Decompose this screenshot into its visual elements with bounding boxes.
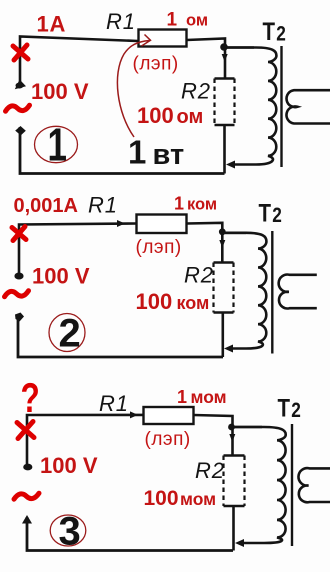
transformer T2 primary winding, circuit 3 (234, 427, 286, 543)
wire: circuit 3 top right R1 to node A (194, 415, 233, 455)
resistor R1 box, circuit 1 (139, 30, 187, 47)
transformer T2 core, circuit 3 (291, 424, 293, 546)
red power arrow into R1, circuit 1 (117, 35, 150, 138)
svg-text:R1: R1 (106, 9, 136, 34)
AC source bottom terminal arrow, circuit 3 (22, 515, 32, 524)
transformer T2 primary winding, circuit 1 (227, 48, 276, 165)
wire: circuit 2 left bottom + bottom run (18, 315, 223, 357)
svg-text:1: 1 (167, 10, 178, 31)
svg-text:ком: ком (187, 196, 217, 214)
svg-text:1: 1 (174, 194, 184, 214)
current arrow into R1, circuit 3 (130, 411, 138, 418)
circled number 3 (50, 510, 86, 554)
wire: node A to transformer primary top, circuit 1 (227, 46, 254, 49)
svg-text:ком: ком (177, 293, 210, 313)
svg-text:мом: мом (191, 387, 227, 407)
wire: R2 bottom to bottom corner, circuit 1 (223, 125, 226, 174)
wire: circuit 1 left bottom + bottom run (20, 127, 225, 174)
svg-text:100 V: 100 V (40, 453, 98, 478)
circled number 2 (49, 312, 85, 356)
svg-text:(лэп): (лэп) (145, 429, 191, 450)
wire: circuit 3 left bottom + bottom run (27, 517, 233, 551)
svg-text:100: 100 (144, 487, 179, 510)
transformer T2 core, circuit 2 (271, 231, 273, 354)
transformer T2 secondary winding, circuit 3 (298, 468, 330, 502)
svg-text:R1: R1 (99, 391, 129, 416)
current arrow on R2 branch, circuit 3 (229, 434, 235, 442)
svg-text:3: 3 (59, 510, 81, 554)
wire: node A to transformer primary top, circuit 3 (234, 426, 262, 429)
svg-text:(лэп): (лэп) (136, 237, 182, 258)
svg-text:1: 1 (128, 134, 146, 171)
resistor R2 box (dashed), circuit 3 (224, 456, 245, 507)
junction arrow at bottom node, circuit 3 (235, 539, 244, 547)
AC source top terminal arrow, circuit 1 (15, 80, 26, 90)
label: unknown current ? (21, 374, 40, 422)
svg-text:100 V: 100 V (31, 79, 89, 104)
svg-text:(лэп): (лэп) (133, 54, 179, 75)
current arrow on R2 branch, circuit 2 (219, 240, 225, 248)
junction arrow at bottom node, circuit 1 (226, 161, 235, 169)
transformer T2 primary winding, circuit 2 (225, 233, 266, 349)
AC source top terminal arrow, circuit 3 (23, 464, 32, 471)
AC source tilde, circuit 3 (14, 493, 39, 499)
label: T2, circuit 1 (263, 17, 286, 46)
svg-text:1: 1 (177, 387, 187, 407)
switch X mark, circuit 3 (17, 422, 34, 439)
circled number 1 (35, 119, 78, 171)
resistor R1 box, circuit 2 (137, 215, 187, 234)
svg-text:мом: мом (180, 489, 216, 509)
wire: circuit 1 left+top from source to R1 (20, 37, 138, 87)
wire: R2 bottom to bottom corner, circuit 2 (222, 313, 225, 358)
svg-text:2: 2 (59, 312, 81, 356)
svg-text:100: 100 (137, 103, 174, 128)
svg-text:1A: 1A (37, 12, 67, 37)
AC source tilde, circuit 2 (5, 291, 29, 297)
resistor R2 box (dashed), circuit 2 (214, 263, 234, 313)
AC source tilde, circuit 1 (6, 105, 30, 111)
transformer T2 core, circuit 1 (280, 46, 282, 167)
wire: R2 bottom to bottom corner, circuit 3 (232, 506, 235, 551)
label: T2, circuit 2 (259, 199, 282, 228)
AC source bottom terminal arrow, circuit 1 (15, 126, 26, 135)
svg-text:R2: R2 (195, 458, 225, 483)
resistor R2 box (dashed), circuit 1 (215, 79, 235, 126)
wire: circuit 3 left+top from source to R1 (27, 415, 143, 464)
svg-text:0,001A: 0,001A (14, 195, 79, 217)
junction node A dot, circuit 1 (220, 43, 228, 51)
AC source top terminal arrow, circuit 2 (14, 273, 23, 280)
svg-text:R2: R2 (181, 79, 211, 104)
wire: circuit 2 left+top from source to R1 (19, 224, 136, 275)
current arrow into R1, circuit 2 (117, 220, 125, 227)
svg-text:ом: ом (186, 12, 208, 30)
current arrow on R2 branch, circuit 1 (222, 54, 228, 62)
AC source bottom terminal arrow, circuit 2 (15, 313, 24, 322)
wire: circuit 1 top right R1 to node A (187, 39, 226, 79)
junction node A dot, circuit 3 (228, 424, 235, 431)
svg-text:R2: R2 (184, 263, 214, 288)
svg-text:ом: ом (177, 106, 204, 128)
wire: node A to transformer primary top, circuit 2 (225, 232, 246, 235)
switch X mark, circuit 1 (13, 45, 28, 60)
svg-text:1: 1 (48, 119, 67, 171)
junction node A dot, circuit 2 (219, 228, 226, 235)
switch X mark, circuit 2 (12, 227, 26, 241)
svg-text:100 V: 100 V (32, 264, 90, 289)
label: T2, circuit 3 (278, 394, 301, 423)
svg-text:вт: вт (153, 139, 185, 171)
junction arrow at bottom node, circuit 2 (224, 345, 233, 353)
transformer T2 secondary winding, circuit 2 (279, 275, 317, 309)
resistor R1 box, circuit 3 (144, 407, 194, 424)
svg-text:100: 100 (136, 289, 173, 314)
svg-text:R1: R1 (88, 193, 118, 218)
wire: circuit 2 top right R1 to node A (187, 223, 222, 262)
transformer T2 secondary winding, circuit 1 (286, 90, 330, 123)
